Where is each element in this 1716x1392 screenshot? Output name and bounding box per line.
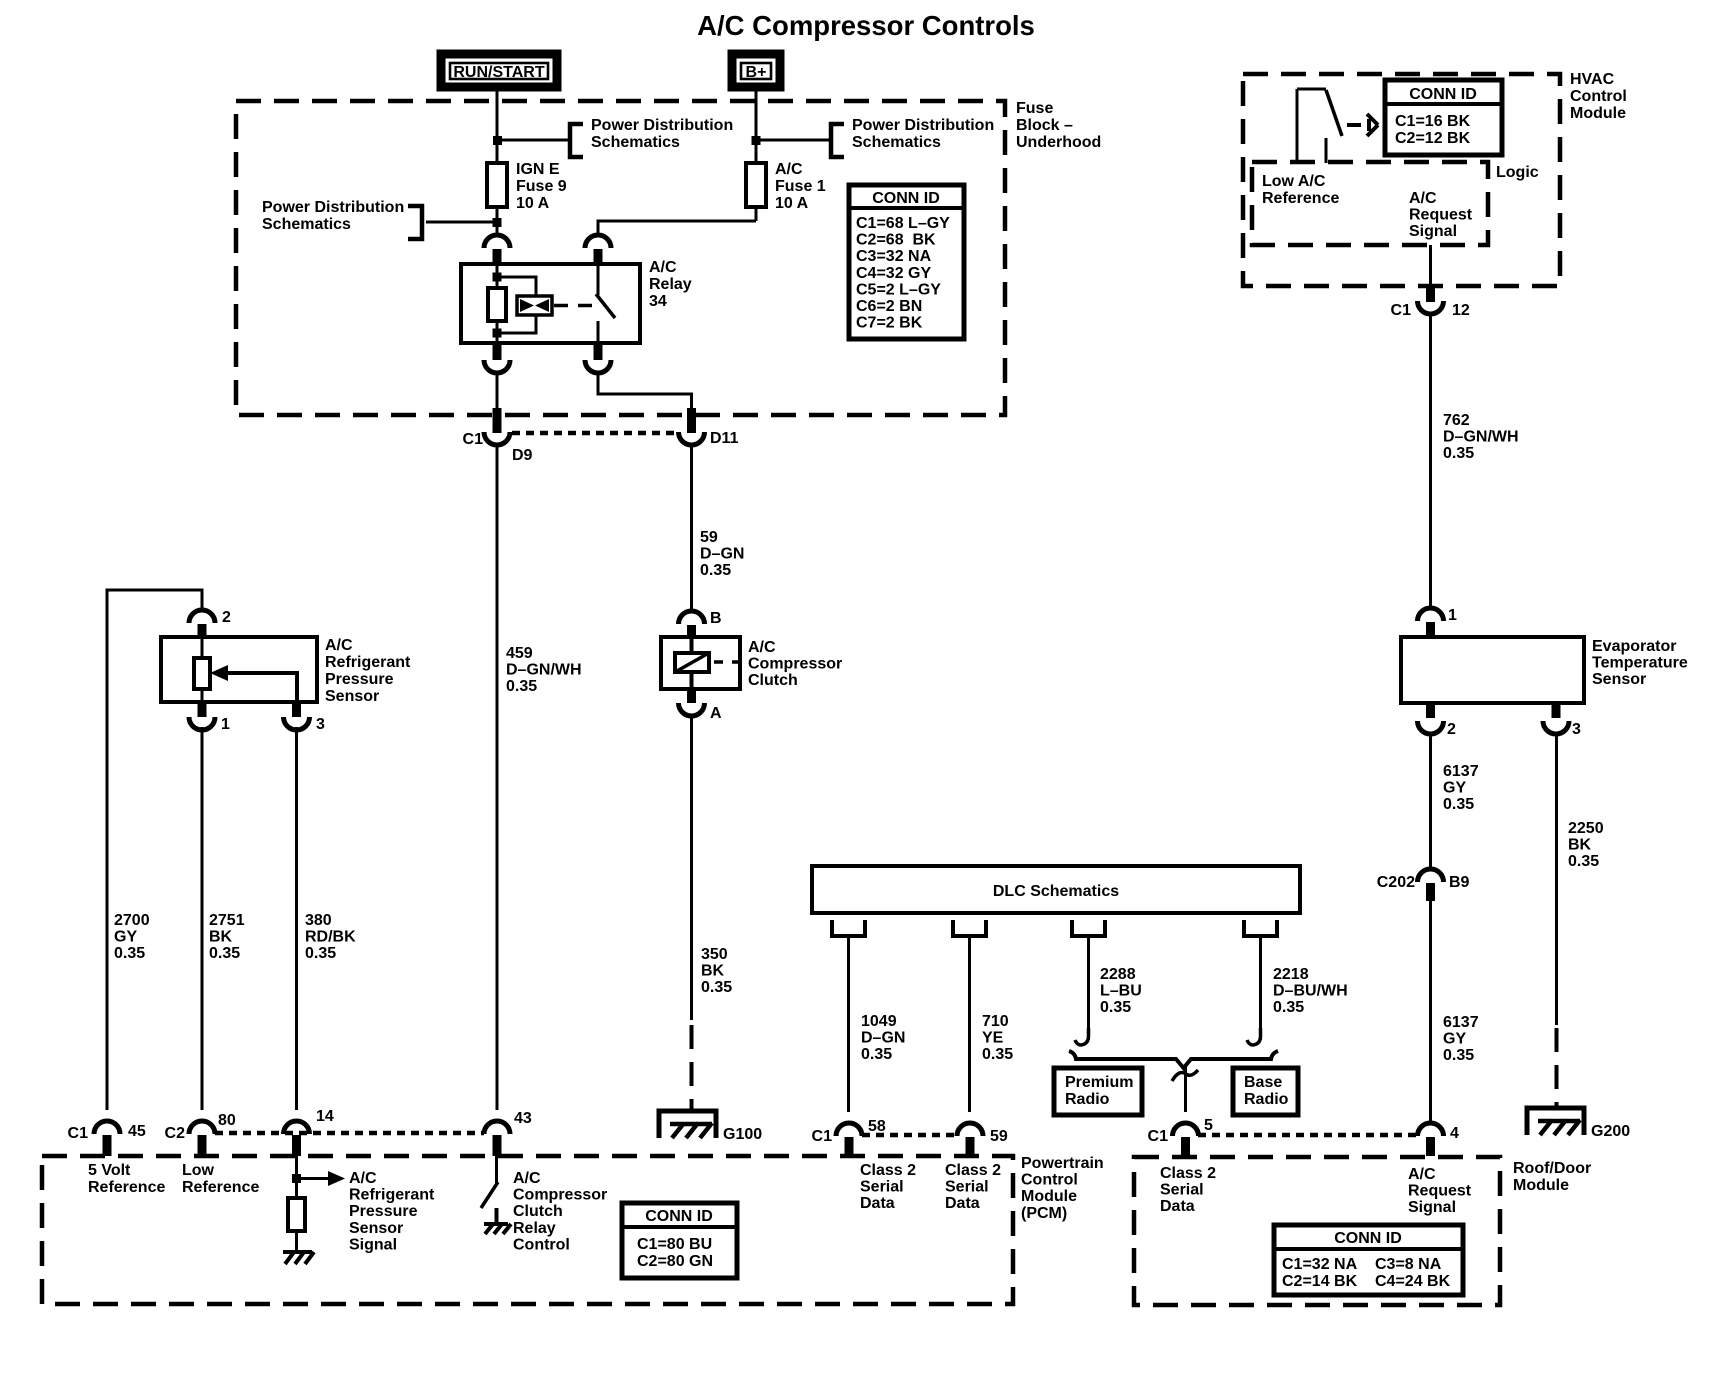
svg-text:Power Distribution: Power Distribution: [262, 199, 404, 216]
svg-text:D–GN/WH: D–GN/WH: [1443, 429, 1519, 446]
connector 3 evaporator: [1543, 703, 1581, 738]
svg-text:BK: BK: [701, 963, 725, 980]
svg-text:5: 5: [1204, 1117, 1213, 1134]
connector 4: [1418, 1123, 1460, 1156]
svg-text:GY: GY: [1443, 780, 1466, 797]
svg-text:C1=32 NA: C1=32 NA: [1282, 1256, 1358, 1273]
svg-text:Premium: Premium: [1065, 1074, 1133, 1091]
wire label 459 D-GN/WH 0.35: [506, 645, 582, 695]
dotted line C1 D9 to D11: [512, 431, 678, 436]
svg-text:A/C: A/C: [748, 639, 776, 656]
svg-text:14: 14: [316, 1108, 334, 1125]
power symbol B+: [732, 54, 780, 87]
wire label 2700 GY 0.35: [114, 912, 150, 962]
wire label 2751 BK 0.35: [209, 912, 245, 962]
wire junction to bracket: [756, 139, 829, 142]
svg-text:10 A: 10 A: [775, 195, 809, 212]
svg-text:C1=80 BU: C1=80 BU: [637, 1236, 712, 1253]
svg-text:C2=68 BK: C2=68 BK: [856, 232, 936, 249]
wire 2218: [1259, 936, 1262, 1040]
svg-text:Schematics: Schematics: [591, 134, 680, 151]
svg-text:D–GN: D–GN: [700, 546, 744, 563]
svg-text:Compressor: Compressor: [748, 656, 842, 673]
wire label 380 RD/BK 0.35: [305, 912, 356, 962]
junction: [292, 1174, 301, 1183]
svg-text:80: 80: [218, 1112, 236, 1129]
svg-text:0.35: 0.35: [700, 562, 731, 579]
wire 6137 lower: [1429, 901, 1432, 1123]
connector below relay right: [585, 343, 611, 373]
fuse block underhood dashed box: [236, 100, 1101, 415]
relay junction bottom: [493, 329, 502, 338]
DLC drop 4 bracket: [1244, 920, 1277, 936]
svg-text:2218: 2218: [1273, 966, 1309, 983]
wire below fuse 9: [496, 207, 499, 236]
svg-text:C6=2 BN: C6=2 BN: [856, 298, 922, 315]
svg-text:Module: Module: [1021, 1188, 1077, 1205]
svg-text:0.35: 0.35: [114, 945, 145, 962]
svg-text:G100: G100: [723, 1126, 762, 1143]
options brace: [1069, 1051, 1278, 1068]
connector C1 5: [1148, 1117, 1213, 1156]
connector B: [679, 610, 722, 639]
conn id table PCM: [622, 1203, 737, 1278]
svg-text:Schematics: Schematics: [262, 216, 351, 233]
wire junction to right bracket: [497, 139, 568, 142]
svg-text:Signal: Signal: [1408, 1199, 1456, 1216]
relay coil symbol: [517, 296, 552, 315]
svg-text:2250: 2250: [1568, 820, 1604, 837]
wire 2288: [1087, 936, 1090, 1040]
svg-text:A/C: A/C: [1409, 190, 1437, 207]
svg-text:DLC Schematics: DLC Schematics: [993, 883, 1119, 900]
fuse A/C Fuse 1 10A: [746, 161, 826, 212]
svg-text:C2=12 BK: C2=12 BK: [1395, 130, 1471, 147]
svg-text:Fuse 1: Fuse 1: [775, 178, 826, 195]
wire label 6137 GY 0.35 upper: [1443, 763, 1479, 813]
wire 350 A to G100: [690, 716, 693, 1020]
clutch coil: [675, 637, 740, 689]
svg-text:Low: Low: [182, 1162, 215, 1179]
svg-text:D–GN: D–GN: [861, 1030, 905, 1047]
connector C2 80: [165, 1112, 236, 1156]
svg-text:Reference: Reference: [88, 1179, 165, 1196]
svg-text:0.35: 0.35: [1568, 853, 1599, 870]
svg-text:(PCM): (PCM): [1021, 1205, 1067, 1222]
wire 1049: [847, 936, 850, 1112]
svg-text:1: 1: [1448, 607, 1457, 624]
svg-text:Base: Base: [1244, 1074, 1282, 1091]
arrow A/C refrigerant pressure sensor signal: [297, 1171, 346, 1186]
svg-text:Powertrain: Powertrain: [1021, 1155, 1104, 1172]
svg-text:IGN E: IGN E: [516, 161, 560, 178]
svg-text:0.35: 0.35: [1443, 1047, 1474, 1064]
bracket power distribution left: [408, 206, 422, 239]
svg-text:Fuse: Fuse: [1016, 100, 1053, 117]
connector 14: [284, 1108, 334, 1156]
svg-text:0.35: 0.35: [305, 945, 336, 962]
svg-text:Fuse 9: Fuse 9: [516, 178, 567, 195]
svg-text:710: 710: [982, 1013, 1009, 1030]
svg-text:Roof/Door: Roof/Door: [1513, 1160, 1591, 1177]
svg-text:Underhood: Underhood: [1016, 134, 1101, 151]
A/C compressor clutch: [661, 637, 842, 689]
svg-text:A/C: A/C: [349, 1170, 377, 1187]
svg-text:Relay: Relay: [649, 276, 692, 293]
wire RUN/START to fuse 9: [496, 91, 499, 163]
HVAC control module dashed box: [1243, 71, 1627, 286]
svg-text:C5=2 L–GY: C5=2 L–GY: [856, 281, 941, 298]
svg-text:B+: B+: [746, 64, 767, 81]
HVAC switch linkage dash arrow: [1347, 114, 1378, 136]
svg-text:3: 3: [1572, 721, 1581, 738]
svg-text:2751: 2751: [209, 912, 245, 929]
svg-text:BK: BK: [209, 929, 233, 946]
svg-text:A/C: A/C: [1408, 1166, 1436, 1183]
svg-text:C1: C1: [1148, 1128, 1169, 1145]
pcm 43 internal switch: [481, 1156, 498, 1224]
connector C1 D9: [463, 408, 533, 464]
connector 59: [957, 1123, 1008, 1156]
svg-text:Data: Data: [945, 1195, 980, 1212]
label A/C compressor clutch relay control: [513, 1170, 607, 1253]
bottom right module dashed box: [1134, 1157, 1500, 1305]
ground G200: [1527, 1108, 1630, 1140]
label A/C request signal HVAC: [1409, 190, 1473, 240]
svg-text:B9: B9: [1449, 874, 1470, 891]
label class 2 serial data pcm 58: [860, 1162, 916, 1212]
svg-text:RD/BK: RD/BK: [305, 929, 356, 946]
svg-text:CONN ID: CONN ID: [872, 190, 940, 207]
relay junction top: [493, 273, 502, 282]
svg-text:A/C: A/C: [513, 1170, 541, 1187]
svg-text:1049: 1049: [861, 1013, 897, 1030]
wire label 350 BK 0.35: [701, 946, 732, 996]
svg-text:Class 2: Class 2: [945, 1162, 1001, 1179]
conn id table HVAC: [1385, 80, 1502, 155]
svg-text:2: 2: [1447, 721, 1456, 738]
label low reference: [182, 1162, 259, 1196]
svg-text:CONN ID: CONN ID: [645, 1208, 713, 1225]
svg-text:D–BU/WH: D–BU/WH: [1273, 983, 1348, 1000]
svg-text:Compressor: Compressor: [513, 1187, 607, 1204]
svg-text:C1: C1: [1391, 302, 1412, 319]
label roof/door module: [1513, 1160, 1591, 1194]
svg-text:D–GN/WH: D–GN/WH: [506, 662, 582, 679]
wire B+ down: [755, 91, 758, 163]
svg-text:Sensor: Sensor: [349, 1220, 403, 1237]
connector 43: [484, 1110, 532, 1156]
svg-text:D11: D11: [710, 430, 739, 447]
chassis ground under 43: [484, 1224, 511, 1234]
wire jog left to relay switch input: [598, 221, 756, 236]
svg-text:Radio: Radio: [1065, 1091, 1110, 1108]
svg-text:Data: Data: [860, 1195, 895, 1212]
connector into relay pin top right: [585, 235, 611, 265]
svg-text:43: 43: [514, 1110, 532, 1127]
wire label 2288 L-BU 0.35: [1100, 966, 1142, 1016]
svg-text:HVAC: HVAC: [1570, 71, 1615, 88]
svg-text:Schematics: Schematics: [852, 134, 941, 151]
wire to ground: [295, 1231, 298, 1252]
power symbol RUN/START: [441, 54, 557, 87]
svg-text:Evaporator: Evaporator: [1592, 638, 1676, 655]
wire brace to C1 5: [1184, 1066, 1187, 1112]
wire 380 pin3 to 14: [295, 727, 298, 1110]
fuse IGN E Fuse 9 10A: [487, 161, 567, 212]
label 5 volt reference: [88, 1162, 165, 1196]
svg-text:0.35: 0.35: [701, 979, 732, 996]
junction below fuse 9: [493, 218, 502, 227]
dotted line 5 to 4: [1198, 1133, 1417, 1138]
svg-text:762: 762: [1443, 412, 1470, 429]
svg-text:Power Distribution: Power Distribution: [591, 117, 733, 134]
svg-text:Data: Data: [1160, 1198, 1195, 1215]
bracket power distribution right of B+: [831, 124, 844, 157]
wire relay left to C1 D9: [496, 373, 499, 410]
svg-text:12: 12: [1452, 302, 1470, 319]
wire logic box to C1 12: [1429, 245, 1432, 300]
wire label 2250 BK 0.35: [1568, 820, 1604, 870]
svg-text:34: 34: [649, 293, 667, 310]
svg-text:B: B: [710, 610, 722, 627]
DLC schematics box: [812, 866, 1300, 913]
wire 6137 upper: [1429, 733, 1432, 870]
connector C202 B9: [1377, 869, 1470, 901]
connector D11: [679, 408, 739, 447]
pcm resistor under 14: [288, 1198, 305, 1231]
svg-text:D9: D9: [512, 447, 533, 464]
svg-text:0.35: 0.35: [1273, 999, 1304, 1016]
svg-text:Class 2: Class 2: [1160, 1165, 1216, 1182]
DLC drop 3 bracket: [1072, 920, 1105, 936]
connector 1 evaporator: [1418, 607, 1458, 637]
svg-text:Control: Control: [1021, 1172, 1078, 1189]
wire 2250 evap 3 down: [1555, 733, 1558, 1025]
wire 459 C1 to 43: [496, 445, 499, 1110]
svg-text:A/C: A/C: [649, 259, 677, 276]
svg-text:C7=2 BK: C7=2 BK: [856, 315, 923, 332]
chassis ground under 14: [283, 1252, 314, 1264]
svg-text:0.35: 0.35: [861, 1046, 892, 1063]
svg-text:Temperature: Temperature: [1592, 655, 1688, 672]
svg-text:459: 459: [506, 645, 533, 662]
svg-text:A/C: A/C: [325, 637, 353, 654]
svg-text:6137: 6137: [1443, 1014, 1479, 1031]
svg-text:BK: BK: [1568, 837, 1592, 854]
svg-text:RUN/START: RUN/START: [453, 64, 544, 81]
svg-text:2288: 2288: [1100, 966, 1136, 983]
svg-text:Low A/C: Low A/C: [1262, 173, 1326, 190]
svg-text:350: 350: [701, 946, 728, 963]
svg-text:0.35: 0.35: [1443, 796, 1474, 813]
svg-text:Signal: Signal: [1409, 223, 1457, 240]
wire label 710 YE 0.35: [982, 1013, 1013, 1063]
svg-text:G200: G200: [1591, 1123, 1630, 1140]
svg-text:L–BU: L–BU: [1100, 983, 1142, 1000]
wire 710: [968, 936, 971, 1112]
bracket power distribution right of run/start: [570, 124, 583, 157]
svg-text:0.35: 0.35: [209, 945, 240, 962]
relay resistor: [488, 288, 506, 321]
A/C refrigerant pressure sensor box: [161, 637, 411, 705]
wire 762: [1429, 314, 1432, 608]
PCM dashed box: [42, 1156, 1013, 1304]
connector C1 58: [812, 1118, 886, 1156]
wire below fuse 1: [755, 207, 758, 221]
dashed wire to G200: [1555, 1028, 1559, 1108]
junction: [752, 136, 761, 145]
svg-text:Clutch: Clutch: [513, 1203, 563, 1220]
svg-text:Class 2: Class 2: [860, 1162, 916, 1179]
connector pin 3 pressure sensor: [284, 702, 326, 733]
svg-text:Relay: Relay: [513, 1220, 556, 1237]
connector A: [679, 689, 723, 722]
svg-text:Clutch: Clutch: [748, 672, 798, 689]
svg-text:C4=32 GY: C4=32 GY: [856, 265, 931, 282]
svg-text:2: 2: [222, 609, 231, 626]
svg-text:Request: Request: [1408, 1183, 1472, 1200]
svg-text:Pressure: Pressure: [349, 1203, 418, 1220]
svg-text:Block –: Block –: [1016, 117, 1073, 134]
svg-text:C2=80 GN: C2=80 GN: [637, 1253, 713, 1270]
conn id table bottom right: [1274, 1225, 1463, 1295]
HVAC switch: [1297, 89, 1342, 163]
svg-text:C202: C202: [1377, 874, 1415, 891]
svg-text:58: 58: [868, 1118, 886, 1135]
svg-text:Control: Control: [1570, 88, 1627, 105]
svg-text:0.35: 0.35: [1443, 445, 1474, 462]
relay switch: [596, 264, 615, 343]
svg-text:2700: 2700: [114, 912, 150, 929]
svg-text:C4=24 BK: C4=24 BK: [1375, 1273, 1451, 1290]
connector into relay pin top left: [484, 235, 510, 265]
svg-text:A/C Compressor Controls: A/C Compressor Controls: [697, 10, 1035, 41]
connector 2 evaporator: [1418, 703, 1457, 738]
label powertrain control module: [1021, 1155, 1104, 1222]
dotted line 58 to 59: [862, 1133, 957, 1138]
svg-text:Refrigerant: Refrigerant: [325, 654, 411, 671]
dashed wire to G100: [690, 1025, 694, 1112]
svg-text:C1: C1: [68, 1125, 89, 1142]
pcm 14 internal wire: [295, 1156, 298, 1198]
DLC drop 1 bracket: [832, 920, 865, 936]
svg-text:C3=32 NA: C3=32 NA: [856, 248, 932, 265]
svg-text:YE: YE: [982, 1030, 1004, 1047]
label class 2 serial data right: [1160, 1165, 1216, 1215]
svg-text:380: 380: [305, 912, 332, 929]
wire label 2218 D-BU/WH 0.35: [1273, 966, 1348, 1016]
svg-text:C3=8 NA: C3=8 NA: [1375, 1256, 1442, 1273]
premium radio box: [1054, 1068, 1142, 1115]
ground G100: [659, 1111, 762, 1143]
svg-text:4: 4: [1450, 1125, 1459, 1142]
wire label 59 D-GN 0.35: [700, 529, 744, 579]
svg-text:C1: C1: [812, 1128, 833, 1145]
svg-text:C2=14 BK: C2=14 BK: [1282, 1273, 1358, 1290]
svg-text:CONN ID: CONN ID: [1409, 86, 1477, 103]
connector pin 2 pressure sensor: [189, 609, 231, 638]
base radio box: [1233, 1068, 1298, 1115]
junction: [493, 136, 502, 145]
svg-text:6137: 6137: [1443, 763, 1479, 780]
svg-text:Power Distribution: Power Distribution: [852, 117, 994, 134]
svg-text:Radio: Radio: [1244, 1091, 1289, 1108]
sensor potentiometer: [194, 637, 297, 702]
label A/C request signal bottom: [1408, 1166, 1472, 1216]
svg-text:1: 1: [221, 716, 230, 733]
connector below relay left: [484, 343, 510, 373]
svg-text:59: 59: [700, 529, 718, 546]
svg-text:A: A: [710, 705, 722, 722]
wire top of pressure sensor loop: [107, 590, 202, 1110]
svg-text:10 A: 10 A: [516, 195, 550, 212]
svg-text:Request: Request: [1409, 207, 1473, 224]
svg-text:0.35: 0.35: [1100, 999, 1131, 1016]
relay coil branch wires: [497, 264, 536, 343]
wire left bracket to junction: [426, 221, 497, 224]
svg-text:Module: Module: [1513, 1177, 1569, 1194]
svg-text:Serial: Serial: [1160, 1182, 1204, 1199]
svg-text:Sensor: Sensor: [1592, 671, 1646, 688]
wire 2751 pin1 to C2 80: [201, 727, 204, 1110]
splice squiggle: [1172, 1070, 1198, 1081]
svg-text:GY: GY: [1443, 1031, 1466, 1048]
wire 2218 end hook: [1247, 1028, 1261, 1045]
connector C1 45: [68, 1121, 146, 1156]
svg-text:0.35: 0.35: [982, 1046, 1013, 1063]
conn id table fuse block: [849, 185, 964, 339]
svg-text:Module: Module: [1570, 105, 1626, 122]
svg-text:C2: C2: [165, 1125, 186, 1142]
wire label 1049 D-GN 0.35: [861, 1013, 905, 1063]
label low A/C reference: [1262, 173, 1339, 207]
svg-text:C1: C1: [463, 431, 484, 448]
svg-text:Serial: Serial: [945, 1179, 989, 1196]
connector pin 1 pressure sensor: [189, 702, 230, 733]
svg-text:GY: GY: [114, 929, 137, 946]
svg-text:Reference: Reference: [1262, 190, 1339, 207]
connector C1 12: [1391, 286, 1470, 319]
svg-text:Logic: Logic: [1496, 164, 1539, 181]
dotted line C1 45 to 43: [215, 1131, 484, 1136]
svg-text:Pressure: Pressure: [325, 671, 394, 688]
wire 2288 end hook: [1075, 1028, 1089, 1045]
svg-text:Sensor: Sensor: [325, 688, 379, 705]
svg-text:5 Volt: 5 Volt: [88, 1162, 131, 1179]
svg-text:Serial: Serial: [860, 1179, 904, 1196]
svg-text:Signal: Signal: [349, 1236, 397, 1253]
HVAC logic dashed box: [1252, 162, 1488, 245]
svg-text:59: 59: [990, 1128, 1008, 1145]
svg-text:Control: Control: [513, 1236, 570, 1253]
label class 2 serial data pcm 59: [945, 1162, 1001, 1212]
svg-text:Reference: Reference: [182, 1179, 259, 1196]
svg-text:C1=68 L–GY: C1=68 L–GY: [856, 215, 950, 232]
svg-text:CONN ID: CONN ID: [1334, 1230, 1402, 1247]
wire relay right jog to D11: [598, 373, 692, 410]
svg-text:45: 45: [128, 1123, 146, 1140]
svg-text:0.35: 0.35: [506, 678, 537, 695]
DLC drop 2 bracket: [953, 920, 986, 936]
svg-text:3: 3: [316, 716, 325, 733]
wire label 762 D-GN/WH 0.35: [1443, 412, 1519, 462]
svg-text:A/C: A/C: [775, 161, 803, 178]
svg-text:C1=16 BK: C1=16 BK: [1395, 113, 1471, 130]
evaporator temperature sensor box: [1401, 637, 1688, 703]
relay linkage dashes: [554, 304, 592, 308]
relay A/C Relay 34: [461, 259, 692, 343]
